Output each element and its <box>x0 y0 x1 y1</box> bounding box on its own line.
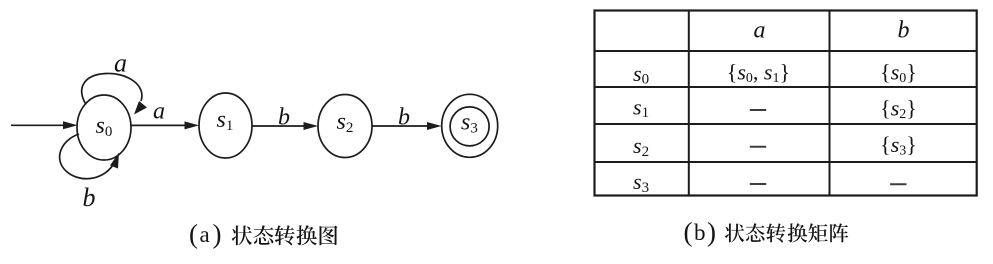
svg-text:a: a <box>153 99 165 125</box>
svg-text:{s0}: {s0} <box>880 59 917 86</box>
svg-text:{s2}: {s2} <box>880 96 917 123</box>
svg-text:b: b <box>83 183 96 212</box>
svg-text:): ) <box>707 217 716 247</box>
svg-text:a: a <box>114 49 127 78</box>
svg-text:b: b <box>278 105 290 131</box>
svg-text:b: b <box>694 220 706 245</box>
svg-text:a: a <box>200 222 210 247</box>
svg-text:(: ( <box>189 219 198 249</box>
svg-text:a: a <box>754 18 766 44</box>
svg-text:b: b <box>398 105 410 131</box>
svg-text:): ) <box>213 219 222 249</box>
svg-text:{s0, s1}: {s0, s1} <box>727 60 790 87</box>
svg-text:{s3}: {s3} <box>880 132 917 159</box>
svg-text:(: ( <box>684 217 693 247</box>
svg-text:b: b <box>898 18 910 44</box>
